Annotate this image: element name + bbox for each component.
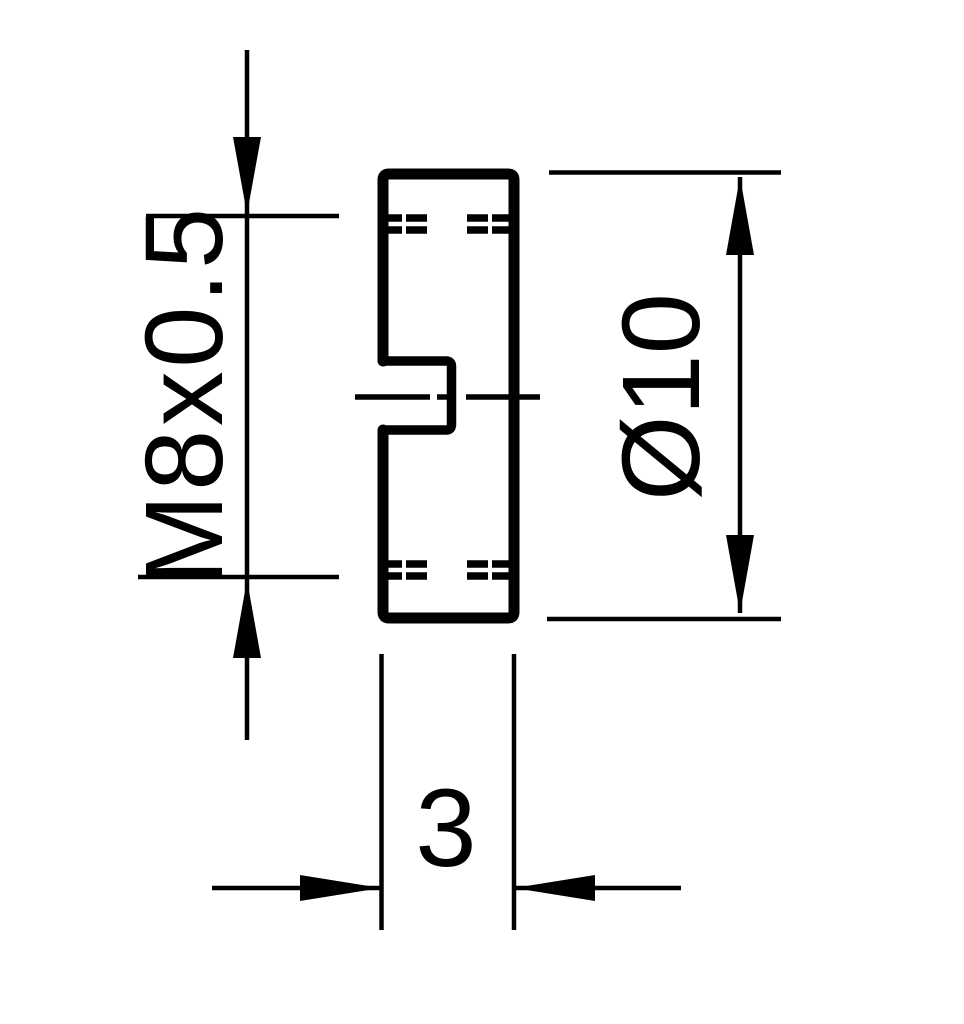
center line [355, 394, 540, 400]
thickness arrow right [300, 875, 381, 901]
thickness arrow left [514, 875, 595, 901]
thickness right extension line [512, 654, 517, 930]
svg-text:3: 3 [415, 767, 476, 890]
M8x0.5 bottom extension line [138, 575, 339, 580]
svg-text:Ø10: Ø10 [600, 293, 723, 501]
thickness left extension line [379, 654, 384, 930]
hidden thread dashed lines top [388, 218, 510, 230]
thickness dimension line right [513, 886, 681, 891]
diameter arrow up [726, 177, 754, 255]
M8x0.5 dimension line [245, 50, 250, 740]
diameter dimension line [738, 177, 743, 613]
diameter arrow down [726, 535, 754, 613]
M8x0.5 top extension line [146, 214, 339, 219]
part outline (slotted knurled nut, side section view) [383, 174, 514, 618]
M8x0.5 arrow down [233, 137, 261, 214]
thickness dimension line left [212, 886, 381, 891]
M8x0.5 arrow up [233, 580, 261, 658]
hidden thread dashed lines bottom [388, 564, 510, 576]
diameter top extension line [549, 170, 781, 175]
diameter bottom extension line [547, 617, 781, 622]
svg-text:M8x0.5: M8x0.5 [123, 204, 246, 586]
